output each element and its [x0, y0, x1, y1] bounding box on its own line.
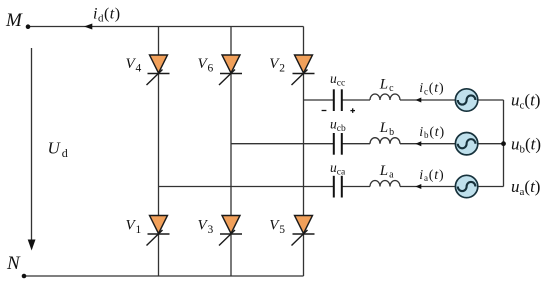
svg-text:M: M: [5, 10, 23, 31]
svg-text:ic(t): ic(t): [419, 81, 444, 96]
svg-text:uc(t): uc(t): [511, 91, 540, 112]
svg-text:ia(t): ia(t): [419, 168, 444, 183]
svg-text:ua(t): ua(t): [511, 177, 540, 198]
svg-text:id(t): id(t): [93, 6, 121, 25]
svg-text:ub(t): ub(t): [511, 134, 541, 155]
svg-text:N: N: [6, 253, 21, 274]
svg-text:ib(t): ib(t): [419, 125, 445, 140]
